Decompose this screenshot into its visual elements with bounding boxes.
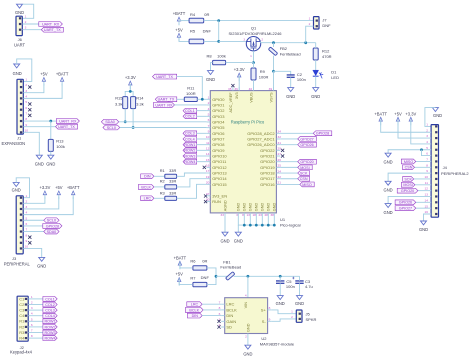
wire J4 pin7: [416, 160, 431, 162]
svg-text:GPIO22: GPIO22: [260, 148, 275, 153]
wire SCL0 to GPIO5: [120, 127, 207, 129]
ground below J1 pin10: [36, 155, 42, 159]
svg-text:+5V: +5V: [55, 185, 63, 190]
ground flag for J1: [13, 64, 22, 76]
svg-text:2: 2: [309, 22, 311, 26]
svg-text:37: 37: [206, 192, 210, 196]
junction gate node: [252, 61, 255, 64]
svg-text:0R: 0R: [204, 12, 209, 17]
svg-text:2: 2: [261, 37, 263, 41]
svg-text:GPIO14: GPIO14: [212, 176, 227, 181]
U1 right pin GPIO27_ADC1: [247, 135, 281, 141]
no-connect ADC_VREF: [231, 84, 234, 87]
label CSN: [298, 176, 310, 181]
svg-text:GPIO20: GPIO20: [260, 159, 275, 164]
svg-text:GND: GND: [46, 161, 55, 166]
svg-text:GND: GND: [295, 301, 304, 306]
wire UART_TX label to R11: [177, 98, 184, 100]
svg-text:SD: SD: [226, 325, 232, 330]
power +3.3V above pullups: [129, 84, 131, 89]
svg-text:DIN: DIN: [192, 314, 199, 318]
svg-text:EXPANSION: EXPANSION: [2, 141, 26, 146]
svg-text:20: 20: [206, 181, 210, 185]
svg-text:Pico-logical: Pico-logical: [280, 222, 301, 227]
U1 left pin GPIO9: [206, 147, 225, 153]
U1 left pin GPIO1: [207, 101, 226, 107]
svg-text:GPIO10: GPIO10: [212, 154, 227, 159]
svg-text:17: 17: [206, 169, 210, 173]
svg-text:GPIO19: GPIO19: [260, 165, 275, 170]
wire GPIO18 to SCK label: [280, 172, 298, 174]
wire GPIO20 to label: [280, 161, 298, 163]
svg-text:16: 16: [206, 164, 210, 168]
svg-text:4: 4: [31, 312, 33, 316]
svg-text:R6: R6: [190, 259, 196, 264]
wire R1 to GPIO13: [177, 173, 207, 176]
ground below D1: [313, 88, 319, 92]
svg-text:6: 6: [426, 152, 428, 156]
svg-text:+BATT: +BATT: [374, 111, 387, 116]
svg-text:15: 15: [425, 204, 429, 208]
svg-text:4: 4: [426, 140, 428, 144]
svg-text:100k: 100k: [56, 144, 65, 149]
svg-text:23: 23: [258, 213, 262, 217]
label GPIO27 at J4: [395, 206, 416, 211]
wire DIN to R1: [154, 175, 165, 177]
wire J3 pin10 to ground: [23, 248, 42, 257]
resistor R2: [160, 179, 177, 190]
wire J4 pin12: [418, 190, 431, 192]
label ROW4 at J2: [43, 336, 57, 341]
svg-text:COL4: COL4: [185, 137, 195, 141]
wire J1 pin1 to GND flag: [17, 59, 32, 82]
svg-text:GND: GND: [234, 238, 243, 243]
svg-text:COL2: COL2: [185, 115, 195, 119]
connector J2 keypad: [10, 296, 33, 354]
svg-text:+BATT: +BATT: [67, 185, 80, 190]
svg-text:GND: GND: [13, 71, 22, 76]
svg-text:3: 3: [26, 205, 28, 209]
label DIN at U2: [187, 313, 202, 318]
svg-text:GPIO28: GPIO28: [316, 132, 329, 136]
svg-text:MISO: MISO: [404, 160, 414, 164]
power +5V at J3: [58, 194, 60, 199]
svg-text:1: 1: [25, 14, 27, 18]
svg-text:BCLK: BCLK: [189, 308, 199, 312]
svg-text:1: 1: [309, 17, 311, 21]
wire D1 to ground: [315, 76, 317, 87]
svg-text:GAIN: GAIN: [226, 319, 236, 324]
wire J4 pin1 to GND flag: [425, 108, 436, 127]
wire COL2 to GPIO3: [197, 115, 207, 117]
IC U2 MAX98357 body: [225, 298, 295, 347]
power +BATT top: [178, 20, 180, 25]
wire GND bus below U1: [238, 217, 274, 226]
svg-text:ROW4: ROW4: [45, 337, 56, 341]
wire J6 pin1 to GND flag: [22, 4, 34, 18]
wire J2 pin3: [28, 309, 43, 311]
U1 left pin GPIO11: [206, 158, 227, 164]
wire R4 to rail and J7 pin1: [204, 20, 314, 22]
ground below R13: [48, 155, 54, 159]
svg-text:33R: 33R: [169, 191, 176, 196]
wire R3 to GPIO15: [177, 184, 207, 198]
ground below R8: [208, 71, 214, 75]
power +5V audio: [178, 281, 180, 286]
wire COL3 to GPIO6: [197, 132, 207, 134]
wire GND bus to ground: [237, 225, 239, 232]
label ROW2 at Pico: [183, 148, 197, 153]
svg-text:4: 4: [25, 94, 27, 98]
svg-text:GPIO21: GPIO21: [260, 154, 275, 159]
svg-text:13: 13: [425, 193, 429, 197]
svg-text:4: 4: [26, 211, 28, 215]
ground flag for J4: [432, 108, 442, 119]
junction R4/R5 node: [217, 19, 220, 22]
wire GPIO19 to MOSI label: [280, 166, 298, 168]
svg-text:DIN: DIN: [226, 313, 233, 318]
wire J3 pin6: [23, 225, 43, 227]
U1 left pin GPIO6: [207, 130, 226, 136]
wire GPIO28 to label: [280, 132, 313, 134]
ground below C3: [297, 296, 303, 300]
svg-text:UART_RX: UART_RX: [42, 22, 60, 26]
svg-text:C4: C4: [19, 313, 25, 318]
svg-text:S-: S-: [262, 319, 267, 324]
ground at J4 pin16: [421, 221, 427, 225]
svg-text:36: 36: [234, 87, 238, 91]
svg-text:LRC: LRC: [191, 303, 199, 307]
label SDA0 at J3: [44, 229, 59, 234]
wire J2 pin5: [28, 320, 43, 322]
svg-text:470R: 470R: [322, 54, 332, 59]
label MOSI: [298, 165, 313, 170]
svg-text:GND: GND: [419, 227, 428, 232]
ground at J4 pin13: [385, 204, 391, 208]
svg-text:1: 1: [208, 96, 210, 100]
svg-text:VIN: VIN: [244, 302, 248, 309]
wire J1 pin9: [23, 126, 55, 128]
wire C2 to ground: [290, 77, 292, 87]
svg-text:DNF: DNF: [203, 29, 212, 34]
svg-text:UART_TX: UART_TX: [156, 75, 173, 79]
wire J4 pin14: [416, 201, 431, 203]
svg-text:GPIO27: GPIO27: [300, 137, 313, 141]
svg-text:GND: GND: [273, 203, 277, 212]
ground flag for J3: [12, 183, 21, 193]
svg-text:0R: 0R: [202, 258, 207, 263]
resistor R7: [190, 275, 209, 287]
svg-text:6: 6: [208, 118, 210, 122]
wire +3.3V to J4 pin4: [411, 120, 431, 144]
wire J3 pin5: [23, 219, 44, 221]
wire R13 to ground: [50, 151, 52, 155]
wire J2 pin8: [28, 337, 43, 339]
wire J7 pin2 to rail2: [306, 26, 314, 43]
svg-text:12: 12: [425, 187, 429, 191]
svg-text:FerriteBead: FerriteBead: [280, 51, 301, 56]
resistor R6: [190, 258, 207, 270]
svg-text:GPIO7: GPIO7: [212, 136, 225, 141]
svg-text:R13: R13: [56, 139, 64, 144]
U2 bottom pin GND: [245, 323, 250, 338]
svg-text:GND: GND: [37, 264, 46, 269]
svg-text:LRC: LRC: [144, 197, 152, 201]
svg-text:3: 3: [25, 89, 27, 93]
ferrite bead FB1: [220, 259, 241, 280]
svg-text:GPIO11: GPIO11: [212, 159, 227, 164]
svg-text:3: 3: [25, 26, 27, 30]
svg-text:13: 13: [246, 213, 250, 217]
label UART_TX at J6: [41, 27, 63, 32]
U1 left pin GPIO7: [206, 135, 225, 141]
wire LRC to U2: [202, 303, 221, 305]
svg-text:GND: GND: [243, 203, 247, 212]
wire C5 stubs: [279, 276, 281, 281]
svg-text:28: 28: [264, 213, 268, 217]
svg-text:GPIO20: GPIO20: [300, 160, 313, 164]
label GPIO26: [298, 142, 317, 147]
svg-text:GND: GND: [12, 187, 21, 192]
svg-text:SCK: SCK: [404, 177, 412, 181]
U1 bottom pin GND: [242, 203, 247, 217]
svg-text:3: 3: [426, 134, 428, 138]
label GPIO26 at J4: [395, 200, 416, 205]
svg-text:100R: 100R: [259, 75, 269, 80]
transistor Q1: [229, 25, 283, 58]
svg-text:18: 18: [252, 213, 256, 217]
wire COL4 to GPIO7: [197, 138, 207, 140]
wire J6 pin2: [22, 23, 39, 25]
svg-text:ROW2: ROW2: [184, 149, 195, 153]
svg-text:BCLK: BCLK: [141, 185, 151, 189]
U1 bottom pin GND: [258, 203, 264, 217]
label ROW1 at J2: [43, 319, 57, 324]
svg-text:GPIO6: GPIO6: [212, 131, 225, 136]
svg-text:GND: GND: [220, 238, 229, 243]
svg-text:GND: GND: [286, 94, 295, 99]
svg-text:33: 33: [221, 213, 225, 217]
svg-text:R2: R2: [160, 179, 165, 184]
junction at C5: [279, 275, 282, 278]
svg-text:COL2: COL2: [45, 303, 55, 307]
svg-text:SCK: SCK: [300, 171, 308, 175]
power +5V at J4: [397, 121, 399, 126]
svg-text:ROW3: ROW3: [184, 154, 195, 158]
svg-text:R3: R3: [19, 330, 24, 335]
svg-text:2: 2: [26, 199, 28, 203]
U1 right pin GPIO19: [260, 164, 281, 170]
label CSN at J4: [403, 165, 415, 170]
LED D1: [313, 70, 339, 80]
svg-text:8: 8: [426, 163, 428, 167]
resistor R11: [184, 85, 197, 101]
wire J4 pin13 to ground: [388, 196, 431, 203]
svg-text:GPIO0: GPIO0: [212, 97, 225, 102]
svg-text:16: 16: [425, 210, 429, 214]
svg-text:GPIO27_ADC1: GPIO27_ADC1: [247, 136, 275, 141]
svg-text:COL4: COL4: [45, 314, 55, 318]
label LRC at U2: [187, 302, 202, 307]
svg-text:GND: GND: [35, 161, 44, 166]
wire SDA0 to GPIO4: [119, 121, 207, 123]
no-connect GPIO22: [281, 149, 284, 152]
U1 right pin GPIO16: [260, 181, 281, 187]
wire J4 pin9 to ground: [388, 173, 431, 181]
svg-text:35: 35: [228, 87, 232, 91]
svg-text:GPIO1: GPIO1: [212, 102, 225, 107]
svg-text:3V3: 3V3: [235, 92, 239, 99]
U1 bottom pin GND: [236, 203, 241, 217]
label COL3 at J2: [43, 308, 57, 313]
wire GPIO27 to label: [280, 138, 298, 140]
label GPIO28 at J3: [43, 224, 62, 229]
label MISO: [300, 182, 314, 187]
wire +BATT to J4 pin2: [381, 120, 431, 133]
junction SCL0: [132, 126, 135, 129]
svg-text:6: 6: [25, 106, 27, 110]
label BCLK: [138, 185, 154, 190]
U1 right pin GPIO21: [260, 152, 281, 158]
svg-text:1: 1: [31, 295, 33, 299]
label BCLK at U2: [185, 308, 203, 313]
wire +5V to R7: [179, 278, 192, 284]
power +BATT audio: [179, 265, 181, 270]
svg-text:COL1: COL1: [45, 297, 55, 301]
svg-text:GPIO28_ADC2: GPIO28_ADC2: [247, 131, 275, 136]
wire Q1 gate down: [253, 51, 255, 63]
svg-text:SCL0: SCL0: [47, 219, 56, 223]
svg-text:19: 19: [206, 175, 210, 179]
wire J2 pin2: [28, 304, 43, 306]
svg-text:ROW1: ROW1: [45, 320, 56, 324]
label ROW3 at Pico: [183, 154, 197, 159]
wire S- to J5 pin2: [271, 319, 296, 321]
wire J3 pin2 to +3.3V: [23, 197, 45, 204]
svg-text:+3.3V: +3.3V: [125, 75, 136, 80]
svg-text:SDA0: SDA0: [105, 120, 115, 124]
svg-text:GPIO28: GPIO28: [46, 224, 59, 228]
svg-text:FerriteBead: FerriteBead: [220, 264, 241, 269]
label ROW2 at J2: [43, 325, 57, 330]
U1 left pin GPIO13: [206, 169, 228, 175]
U1 right pin GPIO26_ADC0: [247, 141, 281, 147]
svg-text:LED: LED: [331, 75, 339, 80]
svg-text:GPIO15: GPIO15: [212, 182, 227, 187]
svg-text:6: 6: [26, 222, 28, 226]
wire audio rail left segment: [216, 275, 227, 277]
label SCK at J4: [403, 177, 414, 182]
wire LRC to R3: [154, 197, 165, 199]
ground below U1: [235, 232, 241, 236]
svg-text:R12: R12: [322, 48, 330, 53]
svg-text:9: 9: [25, 123, 27, 127]
svg-text:GPIO5: GPIO5: [212, 125, 225, 130]
svg-text:GPIO26: GPIO26: [399, 201, 412, 205]
U1 right pin GPIO20: [260, 158, 281, 164]
svg-text:GPIO16: GPIO16: [260, 182, 275, 187]
svg-text:GND: GND: [249, 203, 253, 212]
label SCL0: [103, 125, 120, 130]
label GPIO27: [298, 137, 317, 142]
svg-text:100n: 100n: [297, 77, 306, 82]
svg-text:GND: GND: [237, 203, 241, 212]
wire R8 to gate node: [226, 62, 254, 64]
power +3.3V at J3: [44, 194, 46, 199]
svg-text:MISO: MISO: [302, 183, 312, 187]
svg-text:GND: GND: [261, 203, 265, 212]
resistor R8: [206, 54, 225, 65]
label UART_RX at J6: [39, 22, 63, 27]
wire J4 pin8: [415, 166, 432, 168]
wire J4 pin16 to ground: [424, 214, 432, 221]
svg-text:6: 6: [31, 323, 33, 327]
svg-text:PERIPHERAL: PERIPHERAL: [4, 261, 31, 266]
svg-text:+5V: +5V: [175, 272, 183, 277]
svg-text:100n: 100n: [286, 284, 295, 289]
resistor R9: [251, 68, 268, 80]
junction VSYS node: [272, 70, 275, 73]
wire ROW2 to GPIO9: [197, 149, 207, 151]
svg-text:R2: R2: [19, 324, 24, 329]
svg-text:COL3: COL3: [185, 132, 195, 136]
svg-text:5: 5: [25, 100, 27, 104]
wire J3 pin3 to +5V: [23, 197, 59, 209]
resistor R13: [48, 139, 65, 152]
svg-text:4: 4: [245, 294, 247, 298]
label GPIO28: [313, 131, 332, 136]
svg-text:UART: UART: [14, 43, 26, 48]
svg-text:R4: R4: [19, 336, 25, 341]
svg-text:3: 3: [243, 37, 245, 41]
U1 bottom pin GND: [270, 203, 276, 217]
wire J4 pin6 tie: [422, 150, 432, 156]
wire +BATT to R4: [179, 20, 189, 22]
U1 right pin GPIO18: [260, 169, 281, 175]
resistor R3: [160, 191, 177, 201]
svg-text:+3.3V: +3.3V: [234, 67, 245, 72]
label COL1 at Pico: [183, 108, 197, 113]
label COL1 at J2: [43, 297, 57, 302]
svg-text:CSN: CSN: [300, 177, 308, 181]
svg-text:3V3_EN: 3V3_EN: [212, 193, 227, 198]
connector J3: [4, 194, 31, 267]
svg-text:COL3: COL3: [45, 309, 55, 313]
wire UART_RX to GPIO1: [175, 104, 207, 106]
svg-text:GPIO12: GPIO12: [212, 165, 227, 170]
label UART_RX to GPIO1: [153, 103, 174, 108]
svg-text:100R: 100R: [186, 91, 196, 96]
no-connect GPIO21: [281, 154, 284, 157]
svg-text:10: 10: [24, 128, 28, 132]
no-connect J1 pin2: [28, 85, 31, 88]
U1 top pin ADC_VREF: [228, 87, 233, 113]
U1 pin 3V3_EN: [206, 192, 227, 198]
svg-text:MOSI: MOSI: [300, 166, 309, 170]
svg-text:9: 9: [208, 130, 210, 134]
svg-text:30: 30: [206, 198, 210, 202]
wire BCLK to R2: [154, 186, 165, 188]
svg-text:+5V: +5V: [175, 27, 183, 32]
U1 right pin GPIO22: [260, 147, 281, 153]
svg-text:7: 7: [26, 228, 28, 232]
power +3.3V at J4: [410, 121, 412, 126]
label MOSI at J4: [401, 182, 415, 187]
svg-text:GPIO20: GPIO20: [401, 189, 414, 193]
svg-text:R3: R3: [160, 191, 165, 196]
wire J2 pin1: [28, 298, 43, 300]
wire R6 to audio rail: [207, 268, 216, 276]
